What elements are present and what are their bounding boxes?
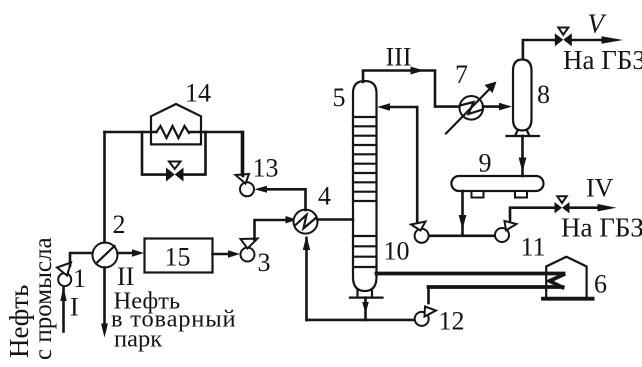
label Нефть в товарный парк bbox=[111, 288, 236, 353]
svg-text:10: 10 bbox=[384, 237, 410, 266]
label stream I bbox=[70, 293, 79, 322]
svg-text:13: 13 bbox=[253, 154, 279, 183]
arrow on line I (up) bbox=[60, 287, 66, 302]
separator 8 vessel bbox=[513, 60, 532, 131]
wire bottom header riser to exchanger 4 with arrow bbox=[303, 236, 310, 320]
wire line II out of exchanger 2 bottom bbox=[103, 268, 106, 325]
valve on line V bbox=[555, 28, 572, 47]
heat exchanger U2 bbox=[93, 243, 118, 268]
svg-text:На ГБЗ: На ГБЗ bbox=[563, 45, 642, 75]
wire overhead line III from column 5 bbox=[363, 67, 460, 107]
label 6 bbox=[594, 270, 607, 299]
label 10 bbox=[384, 237, 410, 266]
air cooler U7 bbox=[446, 82, 497, 134]
label На ГБЗ top bbox=[563, 45, 642, 75]
label На ГБЗ bottom bbox=[561, 213, 642, 243]
label 13 bbox=[253, 154, 279, 183]
label 15 bbox=[165, 243, 191, 272]
svg-text:6: 6 bbox=[594, 270, 607, 299]
wire pump 13 discharge riser to main line bbox=[241, 132, 244, 175]
label 14 bbox=[185, 79, 211, 108]
vessel 9 supports bbox=[472, 191, 528, 198]
wire pump 3 discharge to exchanger 4 with arrow bbox=[255, 216, 298, 240]
pump 13 bbox=[236, 174, 255, 196]
wire separator 8 bottom to vessel 9 with arrow bbox=[519, 136, 527, 176]
pump 3 bbox=[241, 239, 258, 262]
pump 10 bbox=[411, 222, 429, 243]
wire exchanger 4 top to pump 13 with arrow bbox=[255, 186, 306, 210]
wire feed line I vertical bbox=[62, 288, 65, 332]
wire exchanger 4 to column 5 feed bbox=[318, 218, 354, 221]
label stream III bbox=[386, 43, 412, 72]
wire box 15 to pump 3 with arrow bbox=[213, 250, 241, 257]
valve on line IV bbox=[555, 196, 570, 213]
arrow on line II (down) bbox=[101, 324, 108, 338]
box 15 (electric dehydrator) bbox=[145, 239, 213, 273]
wire pump1 discharge to exchanger 2 bbox=[70, 253, 93, 266]
column 5 upper trays bbox=[353, 117, 377, 201]
label stream V bbox=[588, 9, 608, 39]
svg-text:8: 8 bbox=[537, 80, 550, 109]
wire column 5 side draw to furnace 6 bbox=[377, 272, 564, 276]
wire separator 8 overhead line V bbox=[523, 36, 623, 59]
svg-text:III: III bbox=[386, 43, 412, 72]
wire pump suction header 10-11 bbox=[429, 235, 495, 238]
svg-text:парк: парк bbox=[114, 326, 162, 353]
label 4 bbox=[318, 182, 331, 211]
label Нефть с промысла (vertical) bbox=[4, 237, 57, 360]
label 5 bbox=[333, 83, 346, 112]
furnace 6 coil chevron bbox=[550, 275, 564, 288]
svg-text:12: 12 bbox=[439, 307, 465, 336]
wire exchanger 2 to box 15 with arrow bbox=[118, 249, 145, 256]
separator 8 support bbox=[507, 131, 540, 137]
svg-text:1: 1 bbox=[73, 264, 86, 293]
svg-text:2: 2 bbox=[113, 210, 126, 239]
svg-text:9: 9 bbox=[479, 149, 492, 178]
column 5 (stabilizer) shell bbox=[353, 81, 377, 291]
svg-text:I: I bbox=[70, 293, 79, 322]
svg-text:3: 3 bbox=[258, 248, 271, 277]
svg-text:IV: IV bbox=[586, 174, 614, 203]
wire vessel 9 drop to pump header with arrow bbox=[459, 191, 467, 234]
furnace 6 bbox=[543, 257, 593, 299]
label 7 bbox=[455, 60, 468, 89]
label 2 bbox=[113, 210, 126, 239]
wire column 5 bottoms drop with arrow bbox=[362, 298, 369, 320]
wire main upper line through furnace 14 bbox=[105, 126, 244, 176]
svg-text:с промысла: с промысла bbox=[30, 237, 57, 360]
label 9 bbox=[479, 149, 492, 178]
column 5 skirt support bbox=[350, 289, 383, 298]
vessel 9 (reflux drum) bbox=[451, 176, 543, 191]
svg-text:5: 5 bbox=[333, 83, 346, 112]
svg-text:4: 4 bbox=[318, 182, 331, 211]
label 3 bbox=[258, 248, 271, 277]
pump 1 bbox=[57, 263, 71, 287]
label 8 bbox=[537, 80, 550, 109]
wire pump 10 discharge reflux to column 5 with arrow bbox=[377, 103, 417, 222]
furnace 14 bbox=[151, 104, 201, 144]
svg-text:11: 11 bbox=[521, 233, 546, 262]
wire main line down into exchanger 2 from top bbox=[103, 132, 106, 243]
label 11 bbox=[521, 233, 546, 262]
control valve on bypass bbox=[166, 162, 184, 182]
label stream II bbox=[117, 262, 134, 291]
svg-text:14: 14 bbox=[185, 79, 211, 108]
wire bottom header to pump 12 bbox=[307, 319, 415, 322]
label 1 bbox=[73, 264, 86, 293]
wire bypass around furnace 14 bbox=[142, 132, 206, 175]
label stream IV bbox=[586, 174, 614, 203]
wire pump 12 discharge to furnace 6 bbox=[429, 287, 563, 303]
column 5 lower trays bbox=[353, 236, 377, 267]
pump 11 bbox=[495, 221, 517, 242]
pump 12 bbox=[415, 307, 436, 326]
heat exchanger U4 bbox=[294, 210, 318, 234]
wire cooler 7 to separator 8 with arrow bbox=[483, 103, 512, 111]
label 12 bbox=[439, 307, 465, 336]
svg-text:7: 7 bbox=[455, 60, 468, 89]
svg-text:15: 15 bbox=[165, 243, 191, 272]
svg-text:На ГБЗ: На ГБЗ bbox=[561, 213, 642, 243]
wire pump 11 discharge line IV bbox=[510, 204, 617, 221]
